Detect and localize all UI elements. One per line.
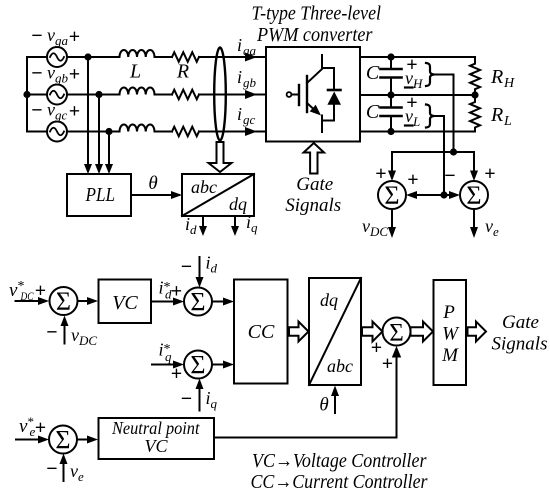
svg-text:+: + bbox=[171, 281, 182, 303]
svg-text:L: L bbox=[412, 114, 420, 129]
wire iq* input bbox=[152, 364, 179, 366]
svg-text:Σ: Σ bbox=[389, 320, 404, 347]
wire mid rail bbox=[360, 94, 475, 96]
svg-text:C: C bbox=[366, 62, 380, 84]
svg-text:Gate: Gate bbox=[296, 174, 333, 195]
transistor IGBT gate bar bbox=[298, 85, 300, 105]
label - vgb + bbox=[31, 63, 80, 86]
node phase c tap bbox=[105, 128, 112, 135]
label - id bbox=[181, 253, 218, 279]
wire vL to sumL bbox=[412, 194, 444, 196]
transistor IGBT emitter stub bbox=[321, 116, 323, 133]
svg-text:H: H bbox=[503, 76, 515, 91]
wire phase b drop to PLL bbox=[98, 95, 100, 168]
wire id output bbox=[202, 216, 204, 230]
svg-text:v: v bbox=[71, 325, 79, 345]
svg-text:PLL: PLL bbox=[85, 184, 115, 206]
wire phase a R to converter bbox=[199, 56, 266, 58]
svg-text:VC: VC bbox=[112, 292, 138, 314]
resistor RL bbox=[470, 95, 480, 132]
block CC bbox=[234, 280, 288, 384]
label - iq bbox=[181, 388, 218, 411]
svg-text:v: v bbox=[70, 461, 78, 481]
svg-text:v: v bbox=[405, 68, 413, 88]
label id bbox=[185, 214, 197, 237]
label iga bbox=[237, 35, 257, 58]
wire vDC feedback bbox=[64, 321, 66, 344]
label iq* reference bbox=[159, 340, 183, 386]
svg-text:Σ: Σ bbox=[190, 288, 205, 317]
svg-text:R: R bbox=[490, 66, 503, 88]
wire phase b L to R bbox=[155, 94, 173, 96]
block VC bbox=[99, 280, 152, 324]
label igb bbox=[237, 67, 257, 90]
svg-text:+: + bbox=[382, 353, 393, 375]
wire top rail bbox=[360, 56, 475, 58]
svg-text:PWM converter: PWM converter bbox=[256, 24, 373, 46]
wire phase c drop to PLL bbox=[108, 132, 110, 168]
svg-text:Σ: Σ bbox=[466, 181, 481, 210]
label igc bbox=[237, 104, 256, 127]
wire S5 to neutral point VC bbox=[77, 439, 93, 441]
svg-text:VC→Voltage Controller: VC→Voltage Controller bbox=[252, 450, 427, 472]
svg-text:−: − bbox=[46, 322, 57, 344]
summing node ve bbox=[460, 181, 488, 209]
svg-text:+: + bbox=[69, 101, 80, 123]
svg-text:i: i bbox=[237, 35, 242, 55]
transistor IGBT body bar bbox=[306, 76, 308, 112]
svg-text:abc: abc bbox=[191, 177, 217, 197]
svg-text:q: q bbox=[165, 349, 172, 364]
transistor IGBT gate lead bbox=[292, 94, 299, 96]
node phase b tap bbox=[95, 91, 102, 98]
svg-text:M: M bbox=[441, 345, 459, 366]
svg-text:v: v bbox=[485, 216, 493, 236]
node top rail cap junction bbox=[387, 53, 394, 60]
node bus-phase-b junction bbox=[23, 91, 30, 98]
resistor R phase b bbox=[172, 90, 199, 100]
wire S1 to VC bbox=[78, 300, 94, 302]
node phase a tap bbox=[84, 53, 91, 60]
wire iq output bbox=[234, 216, 236, 230]
wire vL to sum bbox=[434, 116, 444, 195]
wire neutral point VC to S4 bbox=[214, 352, 397, 438]
svg-text:CC→Current Controller: CC→Current Controller bbox=[251, 471, 428, 493]
svg-text:ga: ga bbox=[55, 33, 69, 48]
wire vH to sum L bbox=[391, 152, 393, 175]
wire ve feedback bbox=[63, 459, 65, 481]
svg-text:θ: θ bbox=[319, 395, 328, 416]
transistor IGBT collector angle bbox=[307, 69, 322, 83]
svg-text:Σ: Σ bbox=[55, 426, 70, 455]
wire phase b source to inductor bbox=[67, 94, 120, 96]
svg-text:gc: gc bbox=[55, 108, 68, 123]
svg-text:dq: dq bbox=[229, 194, 247, 214]
svg-text:DC: DC bbox=[78, 333, 97, 348]
svg-text:Σ: Σ bbox=[190, 351, 205, 380]
label id* reference bbox=[159, 278, 183, 303]
label - vgc + bbox=[31, 100, 80, 123]
svg-text:dq: dq bbox=[320, 290, 338, 310]
svg-text:H: H bbox=[412, 76, 423, 91]
diode D1 bbox=[328, 89, 341, 92]
svg-text:+: + bbox=[69, 26, 80, 48]
label - ve feedback bbox=[46, 458, 84, 484]
hollow arrow S4 to PWM bbox=[411, 322, 434, 342]
svg-text:+: + bbox=[371, 337, 382, 359]
wire vDC output bbox=[391, 209, 393, 231]
svg-text:+: + bbox=[69, 64, 80, 86]
svg-text:T-type Three-level: T-type Three-level bbox=[252, 3, 382, 25]
svg-text:+: + bbox=[35, 417, 46, 439]
label RL bbox=[490, 104, 512, 129]
svg-text:i: i bbox=[237, 67, 242, 87]
svg-text:e: e bbox=[78, 469, 84, 484]
inductor L phase a bbox=[120, 50, 155, 57]
label iq bbox=[246, 212, 258, 235]
svg-text:v: v bbox=[405, 106, 413, 126]
svg-text:W: W bbox=[442, 324, 460, 345]
brace vL bbox=[426, 105, 434, 128]
node vH distribution junction bbox=[450, 148, 457, 155]
svg-text:Neutral point: Neutral point bbox=[111, 418, 200, 438]
label - vDC feedback bbox=[46, 322, 97, 349]
current sensor ellipse bbox=[214, 48, 226, 141]
svg-text:Σ: Σ bbox=[56, 287, 71, 316]
svg-text:v: v bbox=[47, 100, 55, 120]
svg-text:i: i bbox=[237, 104, 242, 124]
svg-text:−: − bbox=[181, 388, 192, 410]
wire phase a L to R bbox=[155, 56, 173, 58]
wire bus to source a bbox=[27, 56, 47, 58]
svg-text:+: + bbox=[375, 163, 386, 185]
wire vH distribution bbox=[392, 151, 474, 153]
svg-text:gc: gc bbox=[243, 112, 256, 127]
wire phase a drop to PLL bbox=[87, 57, 89, 167]
converter block bbox=[266, 47, 360, 142]
svg-text:L: L bbox=[129, 61, 141, 83]
hollow arrow PWM to gate signals bbox=[468, 322, 487, 342]
wire vL to sumR bbox=[444, 194, 455, 196]
svg-text:R: R bbox=[176, 61, 189, 83]
svg-text:−: − bbox=[46, 458, 57, 480]
wire VC to S2 bbox=[151, 301, 179, 303]
capacitor C upper bbox=[390, 57, 392, 69]
svg-text:abc: abc bbox=[327, 356, 353, 376]
svg-text:Signals: Signals bbox=[285, 195, 341, 216]
svg-text:v: v bbox=[47, 63, 55, 83]
label vDC* reference bbox=[9, 279, 46, 303]
wire ve* input bbox=[16, 439, 44, 441]
wire ve output bbox=[473, 209, 475, 231]
label vDC bbox=[362, 216, 388, 239]
wire diode branch top bbox=[322, 68, 334, 90]
svg-text:v: v bbox=[47, 25, 55, 45]
inductor L phase b bbox=[120, 88, 155, 95]
wire theta input bbox=[334, 391, 336, 413]
svg-text:CC: CC bbox=[248, 321, 275, 343]
wire S3 to CC bbox=[212, 364, 229, 366]
summing node S3 iq loop bbox=[184, 351, 212, 379]
AC source vga bbox=[47, 47, 67, 67]
wire id input from top bbox=[199, 257, 201, 282]
label - vga + bbox=[31, 25, 80, 48]
svg-text:Signals: Signals bbox=[492, 334, 548, 355]
abc-dq block bbox=[182, 174, 254, 216]
node bottom rail cap junction bbox=[387, 128, 394, 135]
resistor R phase c bbox=[172, 127, 199, 137]
svg-text:L: L bbox=[503, 114, 512, 129]
AC source vgc bbox=[47, 122, 67, 142]
hollow arrow sensor to abc-dq bbox=[209, 142, 232, 172]
resistor R phase a bbox=[172, 52, 199, 62]
svg-text:DC: DC bbox=[369, 224, 388, 239]
svg-text:q: q bbox=[211, 396, 218, 411]
wire phase a source to inductor bbox=[67, 56, 120, 58]
node mid rail resistor junction bbox=[471, 91, 478, 98]
hollow arrow dq-abc to S4 bbox=[362, 322, 383, 342]
svg-text:−: − bbox=[181, 256, 192, 278]
svg-text:d: d bbox=[190, 222, 197, 237]
wire theta PLL to abc-dq bbox=[131, 194, 179, 196]
svg-text:R: R bbox=[490, 104, 503, 126]
label ve* reference bbox=[19, 414, 46, 439]
wire phase c L to R bbox=[155, 131, 173, 133]
wire diode branch bottom bbox=[322, 105, 334, 121]
wire left source bus bbox=[26, 57, 28, 132]
hollow arrow gate signals to converter bbox=[304, 143, 324, 174]
summing node S4 bbox=[383, 318, 411, 346]
wire bus to source c bbox=[27, 131, 47, 133]
svg-text:Σ: Σ bbox=[384, 181, 399, 210]
node vL into sums junction bbox=[440, 191, 447, 198]
svg-text:−: − bbox=[444, 165, 455, 187]
svg-text:−: − bbox=[31, 100, 42, 122]
svg-text:+: + bbox=[407, 169, 418, 191]
block dq-abc bbox=[309, 278, 361, 385]
wire vDC* input bbox=[16, 300, 45, 302]
svg-text:e: e bbox=[493, 224, 499, 239]
hollow arrow CC to dq-abc bbox=[289, 322, 309, 342]
svg-text:P: P bbox=[442, 302, 455, 323]
svg-text:+: + bbox=[484, 163, 495, 185]
summing node vDC bbox=[378, 181, 406, 209]
svg-text:−: − bbox=[31, 25, 42, 47]
svg-text:C: C bbox=[366, 101, 380, 123]
wire bus to source b bbox=[27, 94, 47, 96]
wire S2 to CC bbox=[212, 301, 229, 303]
capacitor C lower bbox=[390, 95, 392, 108]
svg-text:d: d bbox=[211, 261, 218, 276]
label ve bbox=[485, 216, 499, 239]
node mid rail cap junction bbox=[387, 91, 394, 98]
svg-text:gb: gb bbox=[55, 71, 69, 86]
label + vH bbox=[405, 54, 423, 91]
label + vL bbox=[405, 92, 420, 129]
wire phase c R to converter bbox=[199, 131, 266, 133]
wire vH to sum R bbox=[473, 152, 475, 175]
block neutral point VC bbox=[99, 418, 215, 459]
svg-text:θ: θ bbox=[148, 173, 157, 194]
PLL block bbox=[67, 174, 131, 216]
svg-text:−: − bbox=[31, 63, 42, 85]
resistor RH bbox=[470, 57, 480, 95]
svg-text:q: q bbox=[251, 220, 258, 235]
inductor L phase c bbox=[120, 125, 155, 132]
svg-text:v: v bbox=[362, 216, 370, 236]
brace vH bbox=[426, 63, 434, 86]
summing node S5 ve loop bbox=[49, 426, 77, 454]
label RH bbox=[490, 66, 515, 91]
block PWM bbox=[434, 280, 467, 385]
wire iq input from bottom bbox=[199, 384, 201, 411]
transistor IGBT collector stub bbox=[321, 55, 323, 68]
svg-text:ga: ga bbox=[243, 43, 257, 58]
svg-text:Gate: Gate bbox=[502, 312, 539, 333]
wire phase c source to inductor bbox=[67, 131, 120, 133]
wire bottom rail bbox=[360, 131, 475, 133]
wire vH to sum bbox=[434, 75, 454, 153]
wire phase b R to converter bbox=[199, 94, 266, 96]
summing node S2 id loop bbox=[184, 288, 212, 316]
svg-text:gb: gb bbox=[243, 75, 257, 90]
summing node S1 vDC loop bbox=[50, 287, 78, 315]
svg-text:VC: VC bbox=[144, 436, 168, 456]
AC source vgb bbox=[47, 85, 67, 105]
transistor IGBT emitter with arrow bbox=[307, 103, 314, 110]
